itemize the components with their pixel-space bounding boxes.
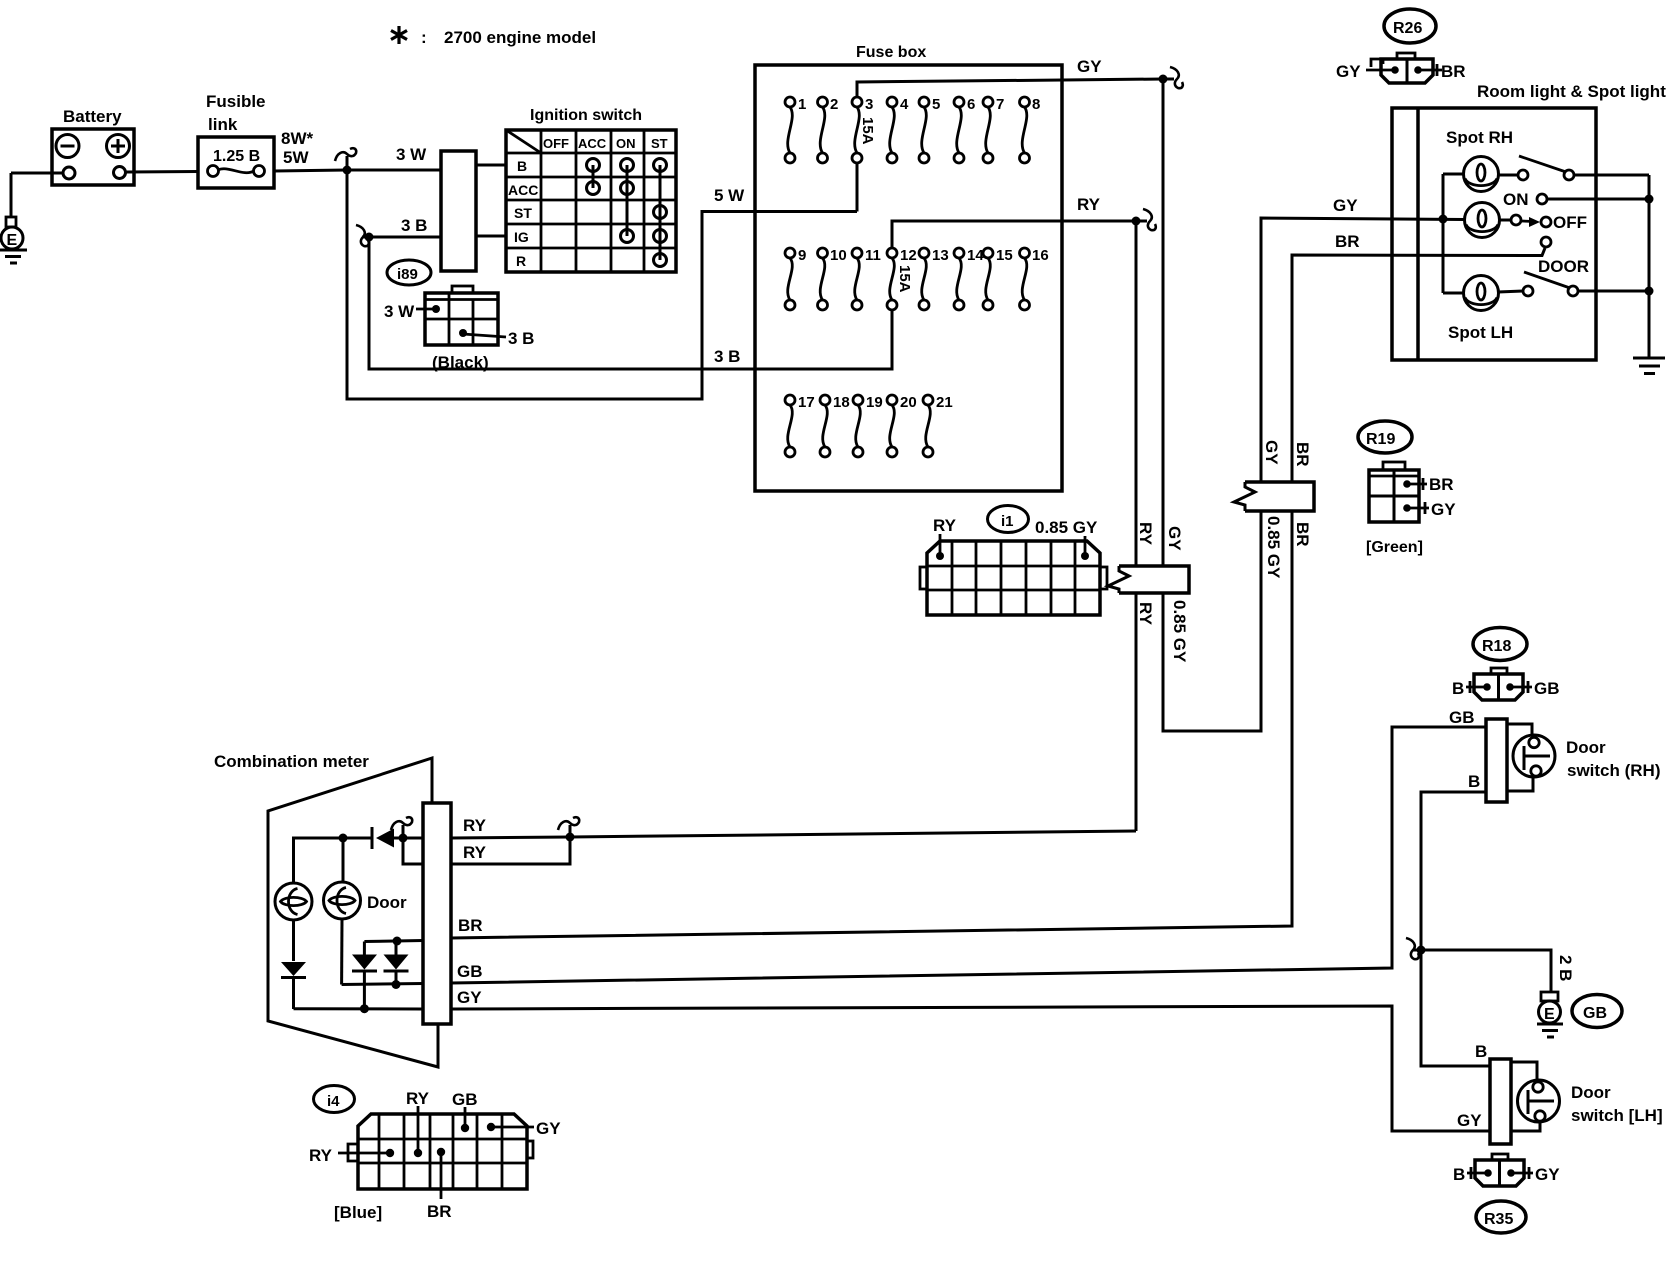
node B junction [1417, 946, 1426, 955]
svg-text:3 W: 3 W [384, 302, 415, 321]
svg-text:11: 11 [865, 247, 881, 264]
svg-text:16: 16 [1032, 247, 1049, 264]
svg-text:3 B: 3 B [714, 347, 740, 366]
svg-text:GB: GB [452, 1090, 478, 1109]
svg-text:15: 15 [996, 247, 1013, 264]
svg-text:[Green]: [Green] [1366, 539, 1423, 556]
svg-text:6: 6 [967, 96, 975, 113]
battery B1 [52, 107, 134, 185]
wire lamp1 to diode chain [292, 920, 295, 961]
svg-text:19: 19 [866, 394, 883, 411]
svg-text::: : [421, 28, 427, 47]
svg-text:8W*: 8W* [281, 129, 314, 148]
fuse 21 [923, 395, 933, 457]
door switch (LH) [1490, 1059, 1663, 1144]
node B junction (3B) [365, 233, 374, 242]
svg-text:GY: GY [457, 988, 482, 1007]
wire right bus to ground [1648, 175, 1651, 358]
svg-text:R: R [516, 253, 526, 269]
node GY diode tap [360, 1004, 369, 1013]
wire GY from meter to door switch LH [451, 1006, 1490, 1131]
fuse 7 [983, 97, 993, 163]
wire fusible link to node A [274, 170, 347, 171]
svg-text:BR: BR [458, 916, 483, 935]
ignition switch connector bar [441, 151, 476, 271]
svg-text:GY: GY [1336, 62, 1361, 81]
fuse 13 [919, 248, 929, 310]
svg-text:Fusible: Fusible [206, 92, 266, 111]
svg-text:12: 12 [900, 247, 917, 264]
connector R18 [1452, 628, 1560, 701]
fuse box [755, 44, 1062, 491]
wire battery positive to fusible link [125, 170, 198, 174]
svg-text:GB: GB [1449, 708, 1475, 727]
svg-text:GY: GY [1535, 1165, 1560, 1184]
wire lower RY loop [403, 838, 423, 864]
svg-text:E: E [1544, 1006, 1555, 1023]
svg-text:RY: RY [406, 1089, 430, 1108]
svg-text:GY: GY [1457, 1111, 1482, 1130]
svg-text:R35: R35 [1484, 1211, 1513, 1228]
node lamp2 tap [339, 834, 348, 843]
wire GY from fuse 3 to top right [857, 79, 1163, 97]
svg-text:3 B: 3 B [508, 329, 534, 348]
svg-text:B: B [1453, 1165, 1465, 1184]
svg-text:3 W: 3 W [396, 145, 427, 164]
switch Spot LH [1498, 272, 1649, 296]
wire lamp2 down [340, 919, 343, 985]
wire 3B node B down and right into fuse box [369, 237, 892, 369]
fuse 18 [820, 395, 830, 457]
svg-text:B: B [1468, 772, 1480, 791]
svg-text:1.25 B: 1.25 B [213, 148, 260, 165]
svg-text:OFF: OFF [1553, 213, 1587, 232]
svg-text:Combination meter: Combination meter [214, 752, 369, 771]
svg-text:GY: GY [1431, 500, 1456, 519]
fuse 12 (15A) [887, 248, 897, 310]
fuse 19 [853, 395, 863, 457]
svg-text:BR: BR [1293, 522, 1312, 547]
svg-text:RY: RY [309, 1146, 333, 1165]
switch position DOOR [1538, 237, 1589, 276]
svg-text:Ignition switch: Ignition switch [530, 107, 642, 124]
wire 2B to ground [1421, 950, 1551, 992]
diode D3 [352, 942, 377, 1009]
svg-text:switch [LH]: switch [LH] [1571, 1106, 1663, 1125]
svg-text:OFF: OFF [543, 136, 569, 151]
ground E (body earth GB) [1537, 992, 1563, 1037]
switch position OFF with arrow [1499, 213, 1587, 232]
svg-text:8: 8 [1032, 96, 1040, 113]
svg-text:RY: RY [1136, 602, 1155, 626]
wire GB from meter to door switch RH [451, 727, 1486, 983]
lamp Room (middle) [1465, 203, 1500, 238]
ignition switch table [506, 107, 676, 272]
node GY inside room light [1439, 215, 1448, 224]
connector i89 [384, 260, 534, 372]
wire RY meter to fuse RY line [451, 837, 570, 838]
wire 5W: node A down, right, up into fuse box [347, 164, 857, 399]
room light & spot light unit [1392, 82, 1666, 360]
svg-text:3: 3 [865, 96, 873, 113]
svg-text:RY: RY [933, 516, 957, 535]
svg-text:10: 10 [830, 247, 847, 264]
connector R19 [1358, 421, 1456, 556]
svg-text:0.85 GY: 0.85 GY [1035, 518, 1098, 537]
svg-text:Spot RH: Spot RH [1446, 128, 1513, 147]
svg-text:15A: 15A [859, 117, 876, 145]
wire GY up from J2 to room light [1261, 218, 1464, 482]
wire lamp RH left [1443, 173, 1464, 176]
svg-text:0.85 GY: 0.85 GY [1170, 600, 1189, 663]
svg-text:18: 18 [833, 394, 850, 411]
connector i1 [920, 506, 1107, 616]
node ON junction [1645, 195, 1654, 204]
joint connector J2 (GY/BR splice) [1234, 482, 1314, 511]
wire GY vertical down to joint J1 [1162, 79, 1165, 566]
node A junction [343, 166, 352, 175]
svg-text:IG: IG [514, 229, 529, 245]
svg-text:Door: Door [367, 893, 407, 912]
svg-text:Battery: Battery [63, 107, 122, 126]
svg-text:20: 20 [900, 394, 917, 411]
lamp Spot RH [1464, 157, 1499, 192]
svg-text:BR: BR [1429, 475, 1454, 494]
svg-text:5W: 5W [283, 148, 309, 167]
svg-text:5: 5 [932, 96, 940, 113]
svg-text:2700 engine model: 2700 engine model [444, 28, 596, 47]
wire B from door switch RH down [1421, 792, 1490, 1066]
svg-text:i1: i1 [1001, 513, 1014, 530]
svg-text:Door: Door [1571, 1083, 1611, 1102]
lamp Spot LH [1464, 276, 1499, 311]
fuse 8 [1020, 97, 1030, 163]
lamp Door 2 [324, 882, 408, 919]
svg-text:7: 7 [996, 96, 1004, 113]
svg-text:GY: GY [1333, 196, 1358, 215]
svg-text:GY: GY [1165, 526, 1184, 551]
svg-text:3 B: 3 B [401, 216, 427, 235]
door switch (RH) [1486, 719, 1661, 802]
svg-text:GY: GY [1077, 57, 1102, 76]
note: 2700 engine model [391, 26, 596, 47]
wire RY from fuse 12 to right [892, 221, 1136, 248]
svg-text:ON: ON [1503, 190, 1529, 209]
wire battery negative to ground E [11, 172, 63, 175]
svg-text:DOOR: DOOR [1538, 257, 1589, 276]
node LH junction [1645, 287, 1654, 296]
wire BR from J2 up to door contact [1292, 248, 1545, 482]
svg-text:9: 9 [798, 247, 806, 264]
fuse 15 [983, 248, 993, 310]
svg-text:Spot LH: Spot LH [1448, 323, 1513, 342]
svg-text:i4: i4 [327, 1093, 340, 1110]
svg-text:GY: GY [536, 1119, 561, 1138]
svg-text:GY: GY [1262, 440, 1281, 465]
fuse 16 [1020, 248, 1030, 310]
pigtail above node A [346, 156, 349, 170]
svg-text:[Blue]: [Blue] [334, 1203, 382, 1222]
fuse 1 [785, 97, 795, 163]
fuse 20 [887, 395, 897, 457]
pigtail left of node B [362, 236, 369, 239]
wire vertical lamp bus [1442, 174, 1445, 293]
wire GY rail [294, 1007, 424, 1010]
combination meter [214, 752, 451, 1067]
svg-text:B: B [1475, 1042, 1487, 1061]
node RY junction [1132, 217, 1141, 226]
svg-text:Fuse box: Fuse box [856, 44, 926, 61]
svg-text:GB: GB [1534, 679, 1560, 698]
svg-text:Room light & Spot light: Room light & Spot light [1477, 82, 1666, 101]
connector R35 [1453, 1154, 1560, 1233]
svg-text:GB: GB [457, 962, 483, 981]
svg-text:2: 2 [830, 96, 838, 113]
svg-text:R19: R19 [1366, 431, 1395, 448]
node RY junction at meter [566, 833, 575, 842]
svg-text:BR: BR [1293, 442, 1312, 467]
connector R26 [1336, 9, 1466, 83]
wire RY vertical down to joint J1 [1135, 221, 1138, 566]
svg-text:BR: BR [427, 1202, 452, 1221]
connector i4 [309, 1086, 561, 1223]
fuse 5 [919, 97, 929, 163]
net tag GB oval [1572, 995, 1622, 1028]
fuse 6 [954, 97, 964, 163]
ground E (battery earth) [0, 217, 27, 263]
diode D4 [384, 937, 409, 990]
svg-text:4: 4 [900, 96, 909, 113]
svg-text:ACC: ACC [508, 182, 538, 198]
svg-text:ST: ST [514, 205, 532, 221]
fuse 3 (15A) [852, 97, 862, 163]
wire lamp top bus RY [294, 838, 373, 883]
fuse 9 [785, 248, 795, 310]
svg-text:R26: R26 [1393, 20, 1422, 37]
svg-text:13: 13 [932, 247, 949, 264]
svg-text:5 W: 5 W [714, 186, 745, 205]
svg-text:14: 14 [967, 247, 984, 264]
svg-text:BR: BR [1335, 232, 1360, 251]
svg-text:ON: ON [616, 136, 636, 151]
joint connector J1 (RY/GY splice) [1108, 566, 1189, 593]
svg-text:ST: ST [651, 136, 668, 151]
wire BR from J2 down to combination meter [451, 511, 1292, 938]
svg-text:GB: GB [1583, 1005, 1607, 1022]
fuse 2 [818, 97, 828, 163]
svg-text:RY: RY [463, 843, 487, 862]
svg-text:B: B [517, 158, 527, 174]
diode D1 (meter RY) [372, 827, 403, 849]
svg-text:0.85 GY: 0.85 GY [1264, 516, 1283, 579]
svg-text:B: B [1452, 679, 1464, 698]
svg-text:Door: Door [1566, 738, 1606, 757]
node diode junction [399, 834, 408, 843]
wire BR rail [364, 941, 423, 942]
svg-text:RY: RY [1136, 522, 1155, 546]
diode D2 (lamp1) [281, 962, 306, 978]
fuse 10 [818, 248, 828, 310]
svg-text:BR: BR [1441, 62, 1466, 81]
ground (room light) [1633, 358, 1665, 374]
wire GB rail [342, 984, 423, 985]
svg-text:RY: RY [1077, 195, 1101, 214]
svg-text:R18: R18 [1482, 638, 1511, 655]
svg-text:2 B: 2 B [1556, 955, 1575, 981]
fusible link FL [198, 92, 274, 188]
fuse 11 [852, 248, 862, 310]
switch Spot RH [1498, 156, 1649, 180]
lamp illumination 1 [275, 883, 312, 920]
wire RY down to combination meter level [1135, 593, 1138, 831]
wire 0.85GY U-turn [1163, 511, 1261, 731]
svg-text:15A: 15A [896, 265, 913, 293]
fuse 14 [954, 248, 964, 310]
svg-text:21: 21 [936, 394, 953, 411]
svg-text:switch (RH): switch (RH) [1567, 761, 1661, 780]
node GY top junction [1159, 75, 1168, 84]
fuse 4 [887, 97, 897, 163]
wire lamp LH left [1443, 292, 1464, 295]
fuse 17 [785, 395, 795, 457]
svg-text:(Black): (Black) [432, 353, 489, 372]
svg-text:link: link [208, 115, 238, 134]
svg-text:E: E [7, 232, 18, 249]
svg-text:17: 17 [798, 394, 815, 411]
svg-text:RY: RY [463, 816, 487, 835]
svg-text:1: 1 [798, 96, 806, 113]
svg-text:i89: i89 [397, 266, 418, 283]
svg-text:ACC: ACC [578, 136, 607, 151]
